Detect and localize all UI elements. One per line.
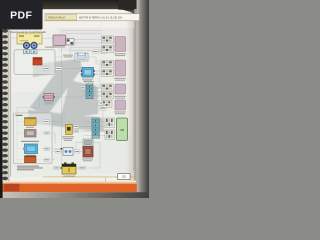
wire group B row2 [36,133,55,144]
connector stub 2 [31,50,37,54]
connector X1 [51,35,74,48]
right page curvature + dark background band [126,10,136,182]
ECU box C37 [114,100,126,114]
wire group B row1 [36,121,61,123]
connector U pins lower [105,130,115,140]
connector C34 pins upper [102,36,114,43]
bottom: page edge, orange cover, desk [9,181,136,183]
teal connector T2 [92,118,99,138]
vertical bus main [60,48,62,168]
wire red comp to label [37,65,55,69]
wire C37 pins [97,102,102,106]
wire battery row [52,143,100,169]
connector C36 pins lower [102,92,114,99]
label above group A [45,47,57,48]
thermostat comp [82,139,93,148]
wire label g2 [79,166,86,169]
wire label q1 [56,150,61,153]
wire label b3 [44,147,50,150]
junction node B [61,167,63,169]
wire label w2 [100,50,107,53]
pressure switch P1 [62,125,74,141]
wire label b2 [44,131,50,134]
group box A outline [14,50,55,75]
wire blue module right [94,62,101,88]
wire label g1 [54,166,59,169]
connector U pins upper [105,118,115,128]
connector stub 1 [24,50,30,54]
control unit U/B green [117,118,128,141]
battery G1 [62,163,76,177]
top dark band [0,0,149,10]
wire group A to blue module [55,68,82,70]
wire C36 pins [95,85,102,97]
wire X1 pins to C34 pins [74,40,102,44]
wire top bundle [62,31,102,39]
wire label p1 [74,125,79,128]
relay K2 [63,53,88,61]
wire teal2 right leads [99,122,105,136]
wire label b4 [44,158,50,161]
watermark S [28,59,104,133]
connector C36 pins upper [102,84,114,91]
blue module M1 [81,68,95,82]
ignition module dark red [82,147,93,162]
wire pressure switch leads [73,127,102,132]
wire label a1 [44,67,50,70]
connector C35 pins upper [102,61,114,68]
svg-text:PDF: PDF [10,10,32,22]
ECU box C35 [114,60,126,81]
ECU box C34 [114,37,126,57]
svg-text:MOTOR B TERRA 1.6L E 1.8L DE 1: MOTOR B TERRA 1.6L E 1.8L DE 16V [79,17,123,20]
blower resistor R1 [43,94,56,105]
wire label w1 [93,50,99,53]
page base [0,0,149,198]
diode red comp [33,58,42,66]
group box B C29 [14,113,53,164]
junction node A [61,148,63,150]
svg-text:23: 23 [122,175,126,179]
wire group A to relay K2 [55,56,75,58]
svg-text:U/B: U/B [120,128,125,132]
clutch connector Q [63,148,73,156]
connector C37 pins [102,101,112,108]
footer rule [43,177,136,182]
wire label t1 [81,86,86,89]
wire upper bus to C34 lower pins [70,48,102,58]
wire label b1 [44,120,50,123]
wire relay K2 to C35 pins [88,57,102,64]
blower motor cyan [23,144,38,156]
compressor clutch coil R [31,42,37,48]
teal connector T1 [84,81,94,98]
wire label p2 [74,129,79,132]
wire clutch coils down [27,48,35,50]
wire yellow relay to frame [11,37,17,39]
schematic frame right [133,29,135,171]
relay gray AP5 [21,130,39,142]
header bar [45,14,140,21]
ECU box C36 [114,84,126,99]
wire label box right [99,101,106,111]
wire teal2 left leads [84,122,92,136]
page number box [118,173,131,179]
wire resistor left branch [17,97,44,117]
wire label q2 [75,150,80,153]
PDF badge [0,0,43,30]
wire C35 lower pins [96,71,102,74]
schematic frame left [10,29,12,177]
connector C34 pins lower [102,46,114,53]
wire resistor to teal connector [54,96,83,98]
wire group B left bus [17,117,25,160]
relay amber AP4 [25,118,37,128]
wire small comp to teal2 [76,143,100,152]
left edge + spiral binding [0,0,3,198]
wire teal1 right leads [93,88,103,119]
wire label a2 [56,67,62,70]
relay box A C-29 [17,33,42,44]
caption under group B [17,166,43,171]
wire teal1 left leads [82,88,86,96]
connector C35 pins lower [102,70,114,77]
wire relay to connector X1 [42,38,53,40]
wire clutch connector row [52,151,83,153]
resistor orange [25,156,37,163]
wire group B row3 [36,148,61,150]
svg-text:FAMÍLIA PALIO: FAMÍLIA PALIO [48,17,65,20]
wire group B row4 [36,159,55,161]
compressor clutch coil L [24,42,30,48]
